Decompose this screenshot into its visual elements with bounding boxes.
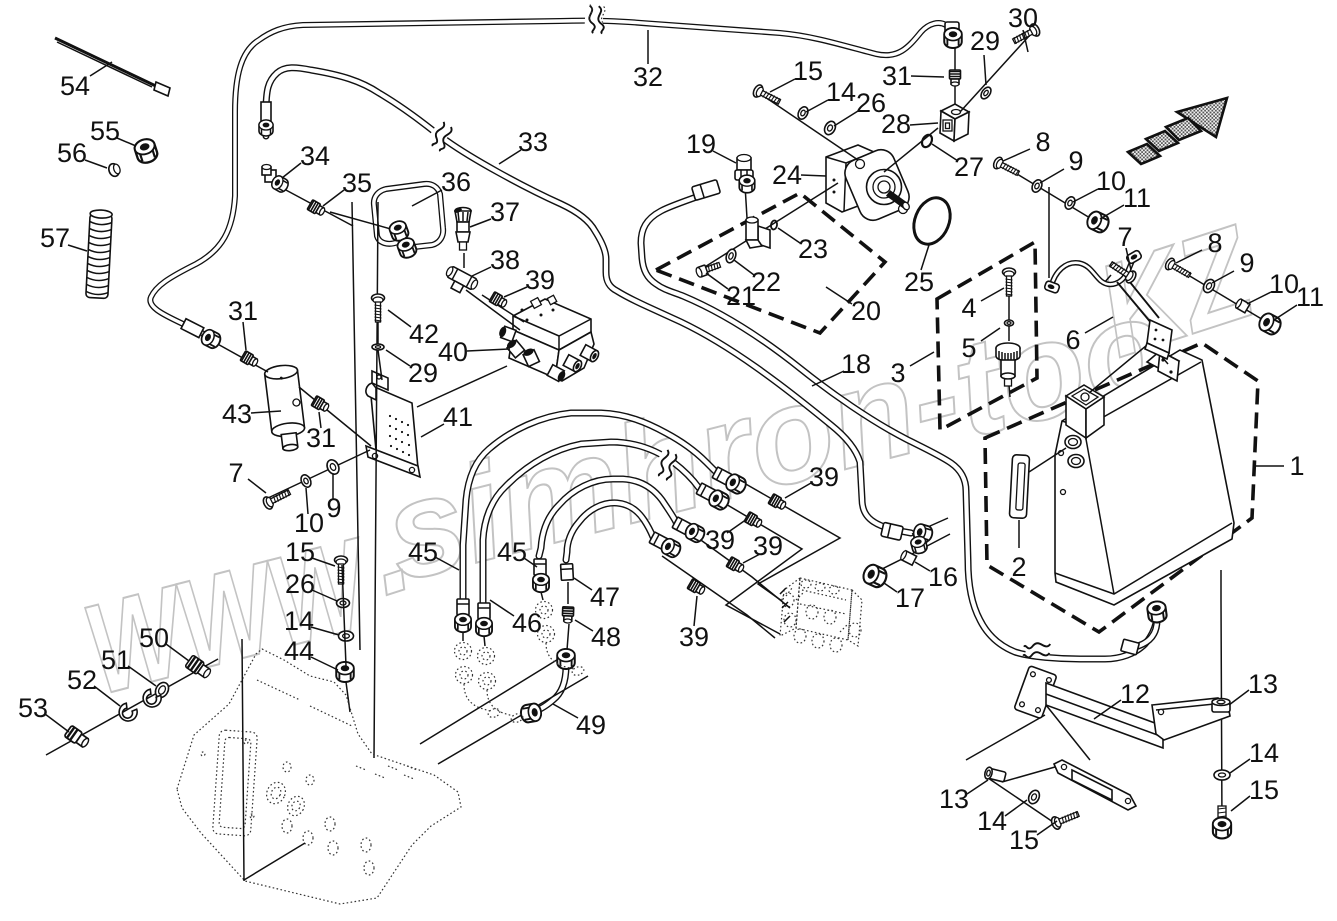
line hose32 elbow down through 31 to block 28: [954, 45, 956, 105]
hose46 end collar+nut: [672, 517, 692, 535]
label 31t: [911, 76, 944, 77]
svg-text:13: 13: [1248, 669, 1278, 699]
label 7r: [1126, 248, 1131, 270]
leader line from block 40 to bracket 41: [417, 366, 507, 407]
dashed box 3: [937, 242, 1037, 430]
drain elbow tube under tank: [1126, 620, 1157, 648]
bolt 42: [372, 294, 385, 322]
label 39e: [694, 596, 697, 626]
pump 24 flange: [841, 145, 914, 224]
washer 29 left: [372, 344, 384, 350]
label 25: [921, 245, 929, 270]
label 27: [932, 144, 958, 161]
label 10r: [1247, 292, 1271, 304]
label 11r: [1274, 305, 1297, 320]
nut 49 end: [520, 703, 543, 724]
line 12 bracket to plate lines: [966, 715, 1045, 760]
hose46 leg collar+nut: [534, 559, 546, 575]
svg-text:12: 12: [1120, 679, 1150, 709]
svg-text:26: 26: [285, 569, 315, 599]
ring 51: [153, 680, 171, 700]
hose45-1 leg collar+nut: [457, 599, 469, 615]
lower arm: [1054, 760, 1136, 810]
label 26c: [312, 590, 337, 601]
svg-text:49: 49: [576, 710, 606, 740]
left ports: [498, 325, 516, 341]
svg-text:46: 46: [512, 608, 542, 638]
bolt 15 center column: [335, 556, 348, 584]
sight gauge 2: [1009, 455, 1029, 519]
fitting 39 near block: [489, 292, 508, 310]
label 36: [412, 190, 442, 206]
nut 17: [861, 562, 890, 589]
elbow 34: [262, 165, 290, 195]
svg-text:7: 7: [228, 458, 243, 488]
label 13r: [1229, 690, 1249, 705]
label 28: [910, 123, 938, 125]
svg-text:16: 16: [928, 562, 958, 592]
svg-text:56: 56: [57, 138, 87, 168]
svg-text:38: 38: [490, 245, 520, 275]
washer 10 left: [299, 473, 313, 489]
label 11t: [1100, 205, 1124, 219]
hose32 end collar+nut left: [181, 319, 204, 338]
label 38: [472, 267, 491, 276]
strap 6: [1051, 259, 1133, 287]
watermark www.simhron-too.kz: [71, 197, 1272, 722]
label 21: [706, 273, 728, 289]
svg-text:36: 36: [441, 167, 471, 197]
hose45-2 end collar+nut: [696, 483, 716, 501]
washer 14 center: [339, 631, 354, 641]
label 31l2: [319, 412, 321, 428]
elbow at hose32 right end: [944, 22, 962, 48]
breather cap 5: [996, 343, 1020, 386]
bushing 39 c: [726, 557, 745, 575]
svg-text:32: 32: [633, 62, 663, 92]
svg-text:29: 29: [408, 358, 438, 388]
svg-text:15: 15: [285, 537, 315, 567]
washer 9 top: [1030, 178, 1044, 194]
svg-text:31: 31: [306, 423, 336, 453]
svg-text:14: 14: [977, 806, 1007, 836]
label 39a: [504, 287, 527, 297]
bolt 8 top: [992, 156, 1021, 179]
label 14r: [1230, 759, 1250, 773]
svg-text:24: 24: [772, 160, 802, 190]
center column line: [342, 565, 350, 712]
label 54: [90, 62, 112, 76]
label 9r: [1212, 271, 1234, 283]
fitting 31 top right: [950, 70, 961, 86]
svg-text:28: 28: [881, 109, 911, 139]
nut 55: [133, 137, 159, 165]
ghost block hatch marks: [780, 588, 790, 622]
right arm upper: [1152, 698, 1230, 740]
bolt 21 socket: [695, 260, 721, 278]
bolt 4: [1003, 268, 1016, 296]
label 32: [647, 30, 649, 64]
bolt 15 left: [1050, 808, 1081, 831]
bolt 30: [1011, 22, 1042, 47]
svg-text:34: 34: [300, 141, 330, 171]
svg-text:33: 33: [518, 127, 548, 157]
line hose45 no2 to ghost block: [719, 500, 802, 634]
label 56: [85, 160, 107, 168]
svg-text:13: 13: [939, 784, 969, 814]
label 7l: [248, 479, 266, 493]
washer 14 top: [796, 105, 810, 121]
svg-text:37: 37: [490, 197, 520, 227]
label 33: [499, 150, 521, 164]
washer 10 top: [1063, 195, 1077, 211]
label 8r: [1176, 250, 1202, 263]
svg-text:42: 42: [409, 319, 439, 349]
label 20: [826, 287, 852, 304]
svg-text:14: 14: [826, 77, 856, 107]
elbow 19: [735, 155, 755, 193]
right ports: [580, 345, 600, 363]
svg-text:39: 39: [525, 265, 555, 295]
tank top angle bracket: [1147, 351, 1179, 372]
label 23: [778, 228, 800, 243]
svg-text:9: 9: [1239, 248, 1254, 278]
pump 24 body: [826, 145, 874, 212]
T fitting 38: [441, 265, 480, 298]
label 45l: [435, 557, 459, 570]
washer 29 top right: [979, 85, 993, 100]
bushing 39 a: [768, 494, 787, 512]
fitting 53: [64, 725, 91, 749]
label 12: [1094, 700, 1121, 719]
hose45-2 leg collar+nut: [478, 603, 490, 619]
line from 19 elbow down: [745, 185, 747, 218]
label 44: [311, 657, 338, 670]
label 14l: [1005, 800, 1027, 816]
label 14: [806, 100, 828, 112]
line fitting 35 down to plate: [352, 202, 378, 758]
svg-text:17: 17: [895, 583, 925, 613]
svg-text:15: 15: [1249, 775, 1279, 805]
loop 36 nuts: [388, 219, 410, 243]
label 15r: [1231, 796, 1250, 811]
svg-text:4: 4: [961, 293, 976, 323]
flange plate left: [1014, 666, 1057, 719]
fitting 35: [307, 200, 326, 218]
line breather column: [1009, 277, 1010, 397]
svg-text:39: 39: [705, 525, 735, 555]
nut 44: [336, 662, 354, 682]
svg-text:6: 6: [1065, 325, 1080, 355]
main beam: [1046, 683, 1163, 748]
label 9t: [1040, 169, 1064, 183]
svg-text:31: 31: [228, 296, 258, 326]
label 22: [734, 260, 754, 275]
hose 47 inner U-curve: [566, 503, 653, 560]
svg-text:1: 1: [1289, 451, 1304, 481]
label 17: [884, 583, 897, 592]
nut 11 top: [1085, 209, 1112, 234]
line filter to bracket 41: [299, 387, 371, 446]
loop tube 36: [374, 184, 443, 247]
tank side ports: [1065, 436, 1081, 449]
line bolt15/14/26 to pump: [762, 95, 858, 160]
svg-text:44: 44: [284, 636, 314, 666]
tank ridge lines: [1055, 362, 1232, 594]
label 29l: [386, 350, 410, 366]
label 52: [94, 686, 120, 706]
label 35: [323, 190, 344, 206]
part 23 elbow+plate: [746, 217, 770, 248]
line hose45 no1 to ghost block: [744, 483, 840, 601]
bushing 39 b: [744, 512, 763, 530]
line bolt 42 to bracket top: [378, 300, 382, 380]
hose47 leg collar: [561, 564, 574, 581]
svg-text:41: 41: [443, 402, 473, 432]
fitting 48: [562, 607, 574, 623]
label 40: [467, 349, 510, 351]
break mark hose 33: [425, 120, 456, 152]
line from washer run down to strap 6: [1048, 187, 1050, 278]
svg-text:2: 2: [1011, 552, 1026, 582]
svg-text:8: 8: [1035, 127, 1050, 157]
label 48: [575, 620, 593, 631]
line bolts 8-11 right: [1168, 263, 1275, 327]
break mark hose 32: [584, 5, 605, 34]
line bolt 7L washers to bracket: [268, 450, 370, 498]
bracket 41: [370, 385, 418, 468]
svg-text:10: 10: [294, 508, 324, 538]
washer 14 left: [1027, 789, 1042, 806]
label 26: [834, 111, 858, 126]
nipple 16: [900, 550, 917, 565]
svg-text:31: 31: [882, 61, 912, 91]
svg-text:21: 21: [726, 281, 756, 311]
label 51: [128, 666, 156, 686]
bushing 39 d: [687, 579, 706, 597]
clips 52: [140, 688, 163, 711]
svg-text:19: 19: [686, 129, 716, 159]
hose 32 (long top hose): [150, 21, 946, 338]
label 24: [801, 175, 826, 176]
bolt 15 top: [751, 83, 782, 107]
washer above cap5: [1005, 320, 1014, 326]
nut 11 right: [1257, 311, 1284, 337]
label 2: [1018, 520, 1020, 548]
line elbow34-35-36 diagonal: [284, 189, 398, 231]
label 34: [282, 163, 301, 178]
fitting 50: [185, 655, 213, 680]
line bolts 8-11 top: [997, 162, 1100, 224]
dashed box 1: [985, 343, 1258, 632]
svg-text:11: 11: [1123, 183, 1151, 213]
hose47 end collar+nut: [649, 532, 669, 550]
line pump port via 23/22/21: [700, 183, 838, 270]
fitting 31 left1: [240, 351, 259, 369]
svg-text:9: 9: [326, 493, 341, 523]
label 15: [770, 79, 795, 92]
washer 26 center: [337, 599, 350, 608]
svg-text:52: 52: [67, 665, 97, 695]
dashed box 20: [656, 193, 885, 333]
svg-text:54: 54: [60, 71, 90, 101]
svg-text:53: 53: [18, 693, 48, 723]
label 39d: [727, 519, 747, 533]
label 29t: [984, 55, 986, 85]
svg-text:45: 45: [408, 537, 438, 567]
svg-text:50: 50: [139, 623, 169, 653]
svg-text:15: 15: [793, 56, 823, 86]
label 6: [1085, 317, 1113, 333]
spacer 10 right: [1234, 298, 1249, 313]
svg-text:5: 5: [961, 333, 976, 363]
washer 14 right: [1214, 770, 1230, 780]
svg-text:55: 55: [90, 116, 120, 146]
svg-text:8: 8: [1207, 228, 1222, 258]
line block28 diagonal 27 to pump: [884, 128, 938, 172]
label 37: [470, 219, 491, 227]
valve 37: [454, 207, 471, 250]
label 45r: [524, 558, 537, 567]
svg-text:25: 25: [904, 267, 934, 297]
svg-text:3: 3: [890, 358, 905, 388]
solid lines through plate: [242, 639, 305, 881]
elbow fitting at hose33 end: [881, 522, 904, 540]
label 18: [812, 371, 844, 386]
nut above elbow 49: [557, 649, 575, 669]
hose 18 (suction hose from elbow 19 to tank): [641, 193, 1157, 659]
label 57: [68, 245, 87, 251]
svg-text:14: 14: [284, 606, 314, 636]
hose45-1 end collar+nut: [712, 467, 732, 485]
svg-text:15: 15: [1009, 825, 1039, 855]
hose18 collar: [692, 180, 721, 201]
hose 33 (inner long hose to elbow 16/17): [266, 68, 911, 533]
filter 43: [264, 364, 307, 453]
line hose32 end to filter 43: [214, 342, 268, 372]
svg-text:40: 40: [438, 337, 468, 367]
label 14c: [311, 627, 339, 635]
label 53: [45, 714, 69, 732]
label 4: [981, 288, 1004, 301]
ghost plate bottom-left (dotted): [177, 649, 461, 904]
label 47: [574, 578, 592, 590]
svg-text:29: 29: [970, 26, 1000, 56]
hose 46 third U-curve: [539, 479, 676, 556]
line hose46 to ghost block: [698, 538, 790, 608]
svg-text:14: 14: [1249, 738, 1279, 768]
label 39b: [785, 483, 811, 498]
ghost balls under hose legs: [463, 592, 543, 646]
label 19: [713, 151, 736, 163]
washer 22: [724, 248, 737, 264]
washer 56: [107, 162, 122, 178]
svg-text:10: 10: [1096, 166, 1126, 196]
svg-text:30: 30: [1008, 3, 1038, 33]
line strap foot context: [1104, 275, 1111, 283]
svg-text:11: 11: [1296, 282, 1324, 312]
bushing 13 right: [1212, 699, 1230, 713]
label 10l: [306, 488, 308, 514]
washer 26 top: [822, 119, 837, 136]
valve block 40: [417, 295, 600, 407]
hose 49 elbow tube: [531, 666, 566, 712]
label 46: [490, 600, 514, 616]
svg-text:10: 10: [1269, 269, 1299, 299]
svg-text:39: 39: [679, 622, 709, 652]
label 39c: [743, 554, 760, 563]
svg-text:45: 45: [497, 537, 527, 567]
label 55: [117, 138, 136, 146]
label 9l: [332, 474, 334, 499]
label 5: [981, 328, 1000, 341]
svg-text:18: 18: [841, 349, 871, 379]
line through 50-53: [46, 659, 218, 755]
label 1: [1256, 465, 1284, 467]
hose 45 second U-curve: [483, 442, 699, 622]
label 16: [915, 562, 930, 571]
line 13L-14L-15L: [988, 765, 1062, 824]
svg-text:43: 43: [222, 399, 252, 429]
o-ring 27: [920, 133, 934, 149]
washer 9 right: [1201, 277, 1217, 294]
break mark hoses 45: [649, 447, 681, 484]
svg-text:47: 47: [590, 582, 620, 612]
line 37-38-39 to block 40: [464, 253, 524, 330]
tank filler flange: [1066, 385, 1104, 409]
bolt 7 right: [1107, 258, 1138, 284]
o-ring 25: [907, 192, 957, 249]
svg-text:35: 35: [342, 168, 372, 198]
block 28: [941, 104, 969, 119]
label 42: [388, 310, 411, 327]
line 29/30 to block28: [960, 35, 1030, 112]
bolt 7 left: [261, 486, 292, 510]
label 3: [910, 352, 934, 366]
line elbow16/17 leaders: [880, 518, 950, 570]
line 54 tie: [55, 38, 160, 88]
long lines plate to hoses: [420, 658, 588, 764]
o-ring 23 small: [770, 220, 777, 230]
label 49: [553, 704, 578, 718]
svg-text:39: 39: [753, 531, 783, 561]
svg-text:27: 27: [954, 152, 984, 182]
ghost valve block (dotted): [780, 578, 862, 652]
label 43: [251, 411, 281, 413]
svg-text:23: 23: [798, 234, 828, 264]
line hose47 to ghost block: [662, 556, 775, 638]
washer 9 left: [325, 458, 342, 476]
svg-text:39: 39: [809, 462, 839, 492]
label 8t: [1003, 149, 1030, 161]
bolt 15 right: [1213, 806, 1231, 838]
hose33 top fitting: [259, 102, 273, 136]
bushing 13 left: [984, 766, 1007, 783]
svg-text:9: 9: [1068, 146, 1083, 176]
label 31l1: [243, 322, 246, 350]
break mark hose 18 bottom: [1023, 638, 1051, 659]
label 10t: [1073, 189, 1098, 202]
label 13l: [967, 780, 988, 794]
label 15c: [312, 558, 335, 566]
hose 45 outer U-curve: [463, 413, 715, 620]
label 30: [1023, 30, 1028, 52]
label 15l: [1037, 821, 1057, 835]
tank drain elbow nut: [1147, 600, 1168, 623]
line 13R-14R-15R vertical: [1221, 570, 1222, 830]
hydraulic tank 1 body: [1055, 350, 1234, 605]
label 50: [166, 644, 189, 661]
